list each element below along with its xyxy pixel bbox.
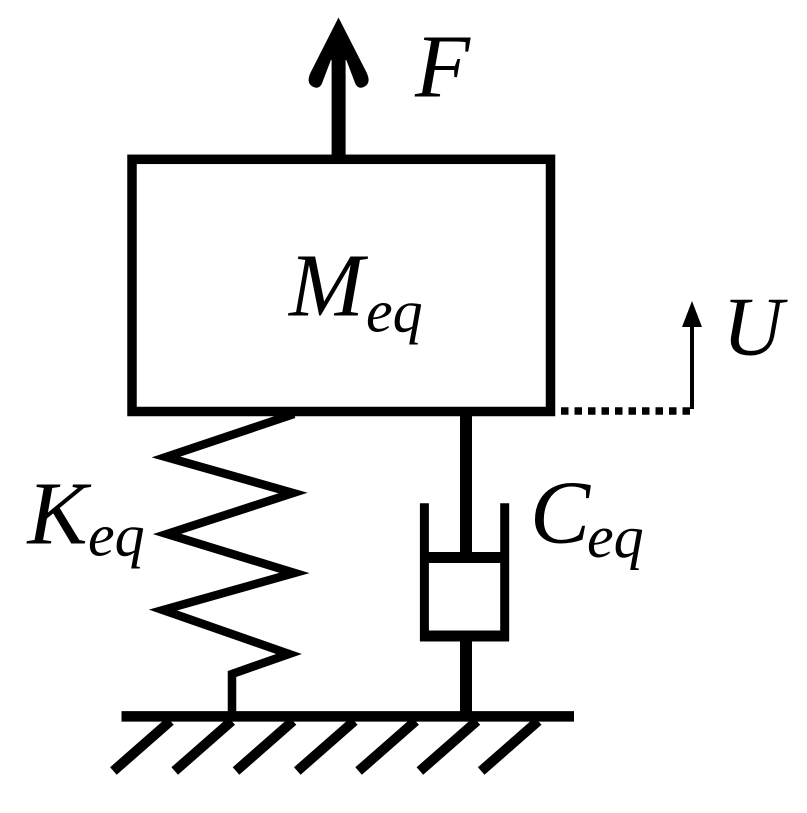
svg-text:F: F	[414, 18, 471, 117]
ground line	[122, 711, 575, 722]
damper cylinder left wall	[420, 503, 429, 641]
svg-text:eq: eq	[587, 504, 644, 570]
damper cylinder bottom	[420, 631, 509, 642]
damper piston plate	[420, 552, 509, 563]
mass block M_eq	[132, 159, 551, 411]
damper rod upper	[460, 411, 472, 560]
displacement arrow U	[682, 301, 702, 409]
spring K_eq	[163, 414, 295, 718]
damper cylinder right wall	[500, 503, 509, 641]
svg-text:eq: eq	[366, 279, 423, 345]
damper rod lower	[460, 641, 472, 718]
dotted reference line	[561, 407, 694, 415]
svg-text:K: K	[26, 465, 92, 564]
force arrowhead	[309, 18, 369, 88]
svg-text:eq: eq	[88, 503, 145, 569]
svg-text:M: M	[287, 237, 369, 336]
svg-text:C: C	[530, 464, 591, 563]
force arrow shaft	[332, 32, 346, 162]
svg-text:U: U	[723, 281, 789, 374]
ground hatching	[113, 721, 538, 771]
